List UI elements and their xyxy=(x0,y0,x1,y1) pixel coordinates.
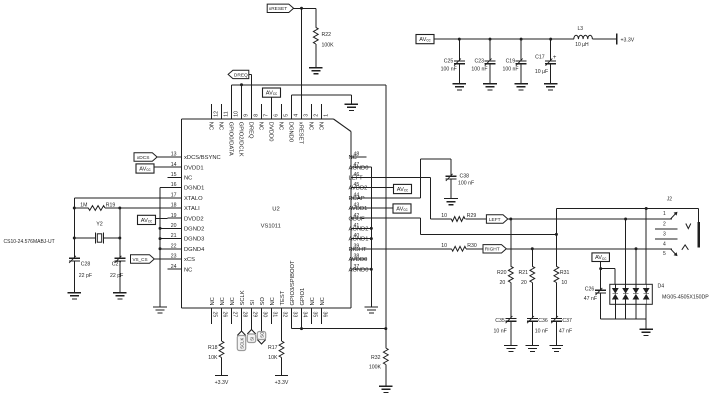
svg-text:NC: NC xyxy=(349,155,357,161)
svg-text:NC: NC xyxy=(308,122,314,130)
svg-text:100 nF: 100 nF xyxy=(441,66,457,72)
svg-text:AVcc: AVcc xyxy=(397,187,409,193)
svg-text:22 pF: 22 pF xyxy=(110,273,123,279)
svg-text:GBUF: GBUF xyxy=(349,216,366,222)
power AVcc rail source xyxy=(416,35,434,44)
svg-text:xDCS: xDCS xyxy=(137,155,150,161)
svg-text:NC: NC xyxy=(258,122,264,130)
svg-text:100K: 100K xyxy=(369,364,382,370)
svg-text:NC: NC xyxy=(318,122,324,130)
power AVcc at DVDD2 xyxy=(138,215,168,224)
wire GBUF to jack sleeve xyxy=(351,209,699,235)
ground under C23 xyxy=(483,84,497,90)
svg-text:+3.3V: +3.3V xyxy=(215,380,229,386)
svg-text:100 nF: 100 nF xyxy=(471,66,487,72)
svg-text:5: 5 xyxy=(284,114,290,117)
wire GPIO3/GPIO1 (bottom) xyxy=(292,308,386,329)
svg-text:R20: R20 xyxy=(497,270,507,276)
svg-text:20: 20 xyxy=(500,280,506,286)
junction XTALI/Y2 xyxy=(118,237,121,240)
svg-text:RIGHT: RIGHT xyxy=(485,247,500,253)
svg-text:29: 29 xyxy=(252,312,258,318)
svg-text:NC: NC xyxy=(218,122,224,130)
svg-text:27: 27 xyxy=(232,312,238,318)
junction XTALO/Y2 xyxy=(73,237,76,240)
crystal part number xyxy=(4,239,55,245)
svg-text:AVcc: AVcc xyxy=(396,207,408,213)
svg-text:13: 13 xyxy=(171,152,177,158)
wire AVcc branch to D4 ch1 xyxy=(601,269,615,285)
diode array D4 xyxy=(610,284,709,320)
svg-text:GPIO1: GPIO1 xyxy=(300,288,306,306)
wire xRESET to R22 xyxy=(294,8,316,119)
svg-text:VS1011: VS1011 xyxy=(261,223,281,229)
svg-text:1M: 1M xyxy=(80,202,87,208)
junction sleeve/D4 xyxy=(645,207,648,210)
junction RIGHT/D4 xyxy=(635,247,638,250)
svg-text:35: 35 xyxy=(312,312,318,318)
svg-text:R30: R30 xyxy=(467,243,477,249)
svg-text:C19: C19 xyxy=(506,58,516,64)
svg-text:33: 33 xyxy=(292,312,298,318)
power AVcc at D4 xyxy=(592,253,610,269)
svg-text:11: 11 xyxy=(224,111,230,116)
capacitor C28 22pF xyxy=(69,256,92,293)
svg-text:C37: C37 xyxy=(562,318,572,324)
capacitor C36 10nF xyxy=(527,316,548,345)
power +3.3V terminal (rail) xyxy=(617,34,635,45)
svg-text:DREQ: DREQ xyxy=(234,72,248,78)
svg-text:U2: U2 xyxy=(272,207,280,213)
svg-text:28: 28 xyxy=(242,312,248,318)
svg-text:SI: SI xyxy=(250,337,255,341)
svg-text:NC: NC xyxy=(208,122,214,130)
svg-text:AGND2: AGND2 xyxy=(349,227,369,233)
svg-text:RCAP: RCAP xyxy=(349,196,365,202)
wire D4 ch3 to RIGHT xyxy=(635,249,637,284)
junction rail/C19 xyxy=(520,38,523,41)
junction AGND1 xyxy=(370,237,373,240)
ground DGND0 xyxy=(345,104,359,110)
junction RIGHT/R21 xyxy=(531,247,534,250)
svg-text:AVcc: AVcc xyxy=(266,91,278,97)
svg-text:AVcc: AVcc xyxy=(139,167,151,173)
resistor R22 100K xyxy=(313,8,334,67)
junction DGND3 xyxy=(159,237,162,240)
junction GPIO bus/R32 xyxy=(384,327,387,330)
svg-text:NC: NC xyxy=(184,267,192,273)
svg-text:AGND1: AGND1 xyxy=(349,237,369,243)
wire RIGHT from pin 39 xyxy=(351,248,452,250)
junction GBUF/R31 xyxy=(555,233,558,236)
svg-text:SCLK: SCLK xyxy=(240,290,246,305)
net label xDCS xyxy=(134,153,168,161)
svg-text:J2: J2 xyxy=(667,197,673,203)
wire LEFT to jack tip xyxy=(508,218,672,220)
wire XTALO xyxy=(74,198,181,258)
wire DREQ to pin 8 xyxy=(249,74,252,119)
power +3.3V terminal (R17) xyxy=(275,376,289,387)
junction DGND2 xyxy=(159,227,162,230)
net label xRESET xyxy=(267,4,293,12)
svg-text:AVcc: AVcc xyxy=(419,37,431,43)
svg-text:NC: NC xyxy=(184,176,192,182)
svg-text:1: 1 xyxy=(663,211,666,217)
U2 pin stubs xyxy=(168,104,367,324)
IC U2 VS1011 body xyxy=(182,119,352,308)
svg-text:10 µH: 10 µH xyxy=(575,42,589,48)
svg-text:VS_CS: VS_CS xyxy=(132,257,147,262)
svg-text:C25: C25 xyxy=(444,58,454,64)
svg-text:xRESET: xRESET xyxy=(269,6,287,12)
svg-text:DGND2: DGND2 xyxy=(184,227,204,233)
resistor R32 100K xyxy=(369,329,388,387)
ground under C36 xyxy=(526,345,540,351)
svg-text:AGND0: AGND0 xyxy=(349,267,369,273)
wire DGND bus (DGND1-DGND4) xyxy=(160,188,182,307)
svg-text:10K: 10K xyxy=(208,355,218,361)
wire D4 ch4 to sleeve xyxy=(645,209,647,285)
capacitor C38 100nF xyxy=(446,174,475,199)
svg-text:R19: R19 xyxy=(106,202,116,208)
svg-text:25: 25 xyxy=(212,312,218,318)
svg-text:10 nF: 10 nF xyxy=(535,329,548,335)
svg-text:C28: C28 xyxy=(81,261,91,267)
ground under C25 xyxy=(453,84,467,90)
svg-text:4: 4 xyxy=(663,241,666,247)
svg-text:34: 34 xyxy=(302,312,308,318)
ground under C38 xyxy=(444,199,458,205)
ground AGND bus xyxy=(365,307,379,313)
wire LEFT from pin 46 xyxy=(351,177,451,219)
svg-text:32: 32 xyxy=(282,312,288,318)
net label RIGHT xyxy=(483,245,506,253)
svg-text:+3.3V: +3.3V xyxy=(621,37,635,43)
ground DGND bus xyxy=(153,307,167,313)
junction XTALO/R19 xyxy=(73,207,76,210)
svg-text:15: 15 xyxy=(171,172,177,178)
svg-text:NC: NC xyxy=(278,122,284,130)
svg-text:AGND0: AGND0 xyxy=(349,165,369,171)
wire DGND0 to ground xyxy=(292,95,352,119)
svg-text:10K: 10K xyxy=(268,355,278,361)
svg-text:R17: R17 xyxy=(268,345,278,351)
ground under C27 xyxy=(113,293,127,299)
resistor R17 10K xyxy=(268,341,284,376)
svg-text:GPIO2/DCLK: GPIO2/DCLK xyxy=(238,122,244,157)
resistor R18 10K xyxy=(208,341,224,376)
junction AGND0-37 xyxy=(370,268,373,271)
svg-text:26: 26 xyxy=(222,312,228,318)
svg-text:XTALI: XTALI xyxy=(184,206,200,212)
svg-text:NC: NC xyxy=(210,297,216,305)
inductor L3 10uH xyxy=(574,26,593,48)
svg-text:L3: L3 xyxy=(578,26,584,32)
svg-text:R21: R21 xyxy=(518,270,528,276)
capacitor C27 22pF xyxy=(110,256,125,293)
ground under R22 xyxy=(309,68,323,74)
svg-text:23: 23 xyxy=(171,254,177,260)
wire GPIO0/GPIO2 bus (top) xyxy=(232,85,386,329)
svg-text:R22: R22 xyxy=(322,32,332,38)
svg-text:3: 3 xyxy=(304,114,310,117)
svg-text:9: 9 xyxy=(244,114,250,117)
junction GPIO1/bus xyxy=(300,327,303,330)
junction DGND4 xyxy=(159,247,162,250)
resistor R19 1M xyxy=(74,202,181,210)
svg-text:NC: NC xyxy=(320,297,326,305)
junction XTALI/C27 branch xyxy=(118,207,121,210)
svg-text:36: 36 xyxy=(322,312,328,318)
svg-text:12: 12 xyxy=(214,111,220,117)
wire pin26 to R18 xyxy=(221,308,223,341)
svg-text:19: 19 xyxy=(171,213,177,219)
capacitor C23 100 nF xyxy=(471,39,495,84)
svg-text:100 nF: 100 nF xyxy=(458,181,474,187)
capacitor C37 47nF xyxy=(551,316,572,345)
resistor R29 10 xyxy=(441,213,486,221)
wire XTALI branch down xyxy=(119,208,121,258)
svg-text:10 nF: 10 nF xyxy=(494,329,507,335)
ground under C19 xyxy=(514,84,528,90)
junction xRESET/pin3 xyxy=(300,7,303,10)
svg-text:2: 2 xyxy=(663,221,666,227)
svg-text:100K: 100K xyxy=(322,43,335,49)
junction rail/C25 xyxy=(458,38,461,41)
svg-text:NC: NC xyxy=(230,297,236,305)
ground under C17 xyxy=(544,84,558,90)
svg-text:DGND0: DGND0 xyxy=(288,122,294,142)
net label SO xyxy=(257,308,265,344)
junction AGND2 xyxy=(370,227,373,230)
net label LEFT xyxy=(486,215,507,223)
junction LEFT/R20 xyxy=(509,218,512,221)
svg-text:C26: C26 xyxy=(585,286,595,292)
svg-text:CS10-24.576MABJ-UT: CS10-24.576MABJ-UT xyxy=(4,239,55,245)
junction rail/C23 xyxy=(489,38,492,41)
net label DREQ xyxy=(228,70,249,78)
svg-text:D4: D4 xyxy=(658,284,665,290)
U2 pin names xyxy=(184,122,368,306)
ground under C28 xyxy=(68,293,82,299)
wire pin32 TEST to R17 xyxy=(281,308,283,341)
wire D4 ch2 to LEFT xyxy=(625,219,627,284)
ground under C35 xyxy=(504,345,518,351)
svg-text:RIGHT: RIGHT xyxy=(349,247,367,253)
svg-text:DGND1: DGND1 xyxy=(184,186,204,192)
wire D4 ground bus xyxy=(601,319,646,329)
connector J2 pin numbers xyxy=(663,211,666,257)
crystal Y2 xyxy=(74,221,120,243)
ground under R32 xyxy=(379,386,393,392)
svg-text:AVDD2: AVDD2 xyxy=(349,186,368,192)
junction GPIO2/DCLK xyxy=(240,83,243,86)
svg-text:MG05-4505X150DP: MG05-4505X150DP xyxy=(662,295,709,301)
svg-text:20: 20 xyxy=(521,280,527,286)
svg-text:SCLK: SCLK xyxy=(240,338,245,349)
wire AVcc rail xyxy=(434,38,617,40)
svg-text:DVDD1: DVDD1 xyxy=(184,165,204,171)
svg-text:NC: NC xyxy=(310,297,316,305)
svg-text:DVDD2: DVDD2 xyxy=(184,216,204,222)
svg-text:AVcc: AVcc xyxy=(595,255,607,261)
svg-text:NC: NC xyxy=(220,297,226,305)
svg-text:R18: R18 xyxy=(208,345,218,351)
svg-text:4: 4 xyxy=(294,114,300,117)
svg-text:2: 2 xyxy=(314,114,320,117)
ground under C37 xyxy=(550,345,564,351)
svg-text:10: 10 xyxy=(441,243,447,249)
wire RCAP to C38 xyxy=(351,159,451,198)
svg-text:TEST: TEST xyxy=(280,290,286,305)
svg-text:1: 1 xyxy=(324,114,330,117)
net label SCLK xyxy=(237,308,245,351)
resistor R21 20 xyxy=(530,249,535,319)
svg-text:SO: SO xyxy=(260,297,266,306)
connector J2 jack symbol xyxy=(655,209,699,257)
svg-text:xCS: xCS xyxy=(184,257,195,263)
svg-text:14: 14 xyxy=(171,162,177,168)
power AVcc at AVDD1 xyxy=(351,204,411,213)
svg-text:C38: C38 xyxy=(460,174,470,180)
connector J2 label xyxy=(667,197,673,203)
svg-text:10 µF: 10 µF xyxy=(535,69,548,75)
capacitor C17 10 µF xyxy=(535,39,557,84)
net label VS_CS xyxy=(131,255,168,263)
svg-text:+3.3V: +3.3V xyxy=(275,380,289,386)
svg-text:31: 31 xyxy=(272,312,278,318)
svg-text:8: 8 xyxy=(254,114,260,117)
svg-text:47 nF: 47 nF xyxy=(559,329,572,335)
svg-text:xRESET: xRESET xyxy=(298,122,304,145)
svg-text:SI: SI xyxy=(250,300,256,306)
svg-text:10: 10 xyxy=(441,213,447,219)
junction AVcc/C26/D4 xyxy=(599,267,602,270)
svg-text:3: 3 xyxy=(663,231,666,237)
svg-text:DGND4: DGND4 xyxy=(184,247,205,253)
resistor R31 10 xyxy=(554,234,559,318)
svg-text:LEFT: LEFT xyxy=(489,217,501,223)
svg-text:24: 24 xyxy=(171,264,177,270)
svg-text:5: 5 xyxy=(663,251,666,257)
resistor R20 20 xyxy=(508,219,513,318)
power +3.3V terminal (R18) xyxy=(215,376,229,387)
power AVcc at DVDD1 xyxy=(136,164,168,173)
svg-text:C23: C23 xyxy=(474,58,484,64)
junction rail/C17 xyxy=(549,38,552,41)
capacitor C25 100 nF xyxy=(441,39,465,84)
capacitor C19 100 nF xyxy=(502,39,526,84)
svg-text:AVDD0: AVDD0 xyxy=(349,257,368,263)
svg-text:R32: R32 xyxy=(371,355,381,361)
power AVcc at AVDD2 xyxy=(351,184,412,193)
svg-text:6: 6 xyxy=(274,114,280,117)
svg-text:47 nF: 47 nF xyxy=(584,296,597,302)
svg-text:AVDD1: AVDD1 xyxy=(349,206,368,212)
svg-text:GPIO0/DATA: GPIO0/DATA xyxy=(228,122,234,156)
svg-text:C36: C36 xyxy=(538,318,548,324)
svg-text:22 pF: 22 pF xyxy=(79,273,92,279)
svg-text:NC: NC xyxy=(270,297,276,305)
svg-text:R31: R31 xyxy=(560,270,570,276)
svg-text:7: 7 xyxy=(264,114,270,117)
resistor R30 10 xyxy=(441,243,483,251)
junction LEFT/D4 xyxy=(624,218,627,221)
svg-text:30: 30 xyxy=(262,312,268,318)
svg-text:xDCS/BSYNC: xDCS/BSYNC xyxy=(184,155,221,161)
svg-text:Y2: Y2 xyxy=(96,221,103,227)
svg-text:LEFT: LEFT xyxy=(349,176,364,182)
capacitor C26 47nF xyxy=(584,269,606,320)
svg-text:GPIO3/SPIBOOT: GPIO3/SPIBOOT xyxy=(290,260,296,306)
ground under D4 xyxy=(639,329,653,335)
power AVcc at DVDD0 xyxy=(263,88,281,119)
svg-text:R29: R29 xyxy=(467,213,477,219)
svg-text:10: 10 xyxy=(561,280,567,286)
svg-text:+: + xyxy=(553,55,557,61)
U2 pin numbers xyxy=(171,111,360,317)
svg-text:DREQ: DREQ xyxy=(248,122,254,139)
svg-text:C27: C27 xyxy=(112,261,122,267)
net label SI xyxy=(247,308,255,343)
svg-text:100 nF: 100 nF xyxy=(502,66,518,72)
svg-text:DGND3: DGND3 xyxy=(184,237,204,243)
capacitor C35 10nF xyxy=(494,316,517,345)
svg-text:C17: C17 xyxy=(535,55,545,61)
svg-text:XTALO: XTALO xyxy=(184,196,203,202)
wire AGND bus xyxy=(351,167,371,307)
svg-text:SO: SO xyxy=(260,331,265,338)
svg-text:C35: C35 xyxy=(495,318,505,324)
wire RIGHT to jack xyxy=(506,248,672,250)
svg-text:DVDD0: DVDD0 xyxy=(268,122,274,142)
svg-text:10: 10 xyxy=(234,111,240,117)
svg-text:AVcc: AVcc xyxy=(141,218,153,224)
